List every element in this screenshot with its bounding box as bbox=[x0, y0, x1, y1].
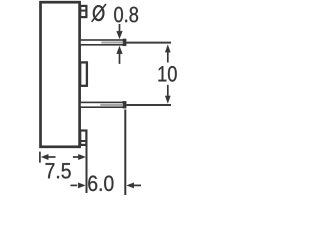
label 10 bbox=[158, 66, 176, 82]
6.0 dim: right arrow (outside, pointing left) bbox=[127, 183, 134, 188]
6.0 dim: left arrow (outside, pointing right) bbox=[71, 184, 78, 186]
7.5 dim: right arrow bbox=[73, 156, 80, 158]
bottom tab divider bbox=[80, 140, 86, 142]
pin 2 gray core bbox=[100, 104, 123, 106]
pin 1 lead bbox=[80, 40, 125, 45]
label 0.8 bbox=[114, 7, 138, 23]
10 dim: upper arrow bbox=[165, 45, 170, 52]
pin 2 lead bbox=[80, 102, 125, 107]
top tab divider bbox=[80, 10, 86, 12]
10 dim: lower arrow bbox=[167, 85, 169, 97]
diameter symbol: slash bbox=[92, 4, 106, 22]
7.5 dim: left arrow bbox=[41, 154, 48, 160]
extension line below pin end (6.0 right) bbox=[124, 110, 126, 196]
pin 1 centerline extension bbox=[126, 42, 171, 44]
label 7.5 bbox=[46, 163, 71, 178]
dia dim arrow up (below pin 1) bbox=[117, 46, 123, 54]
bottom mounting tab bbox=[80, 131, 86, 145]
top mounting tab bbox=[80, 6, 86, 17]
7.5 dim: left extension tick bbox=[39, 152, 41, 163]
pin 2 end cap bbox=[123, 101, 126, 108]
diameter symbol: circle bbox=[94, 6, 104, 20]
pin 1 gray core bbox=[101, 42, 123, 44]
body outline (buzzer side view) bbox=[41, 2, 80, 147]
label 6.0 bbox=[88, 176, 113, 192]
extension line below body right (7.5 right / 6.0 left) bbox=[86, 146, 88, 193]
pin 1 end cap bbox=[123, 39, 126, 46]
dia dim arrow down (above pin 1) bbox=[119, 24, 121, 34]
middle tab bbox=[80, 62, 87, 85]
pin 2 centerline extension bbox=[126, 104, 171, 106]
